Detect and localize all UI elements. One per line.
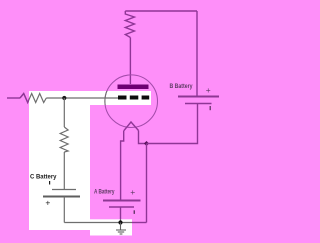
wire plate lead xyxy=(129,38,131,85)
svg-text:C Battery: C Battery xyxy=(30,173,57,180)
junction node cathode xyxy=(144,141,149,146)
wire top horizontal (plate loop) xyxy=(125,10,197,12)
wire A battery to ground dot (white part) xyxy=(120,219,122,222)
filament V xyxy=(124,122,139,131)
junction node grid/C xyxy=(62,96,66,100)
svg-text:+: + xyxy=(206,85,211,95)
svg-text:B Battery: B Battery xyxy=(170,83,193,90)
B battery long plate xyxy=(178,96,219,98)
white box around ground xyxy=(90,219,132,235)
svg-text:+: + xyxy=(45,197,50,207)
wire to C battery xyxy=(63,152,65,190)
B battery minus tick xyxy=(210,106,211,110)
A battery minus tick xyxy=(134,210,135,214)
wire A battery to ground dot (pink part) xyxy=(120,207,122,219)
svg-text:+: + xyxy=(130,187,135,197)
tube envelope arc over white band xyxy=(105,75,158,128)
resistor R_grid left part on pink xyxy=(20,94,32,103)
A battery short plate xyxy=(109,206,134,208)
C battery long plate xyxy=(43,196,80,198)
wire node down to ground rail xyxy=(146,144,148,223)
grid input lead (on pink) xyxy=(7,97,20,99)
ground symbol xyxy=(120,223,122,230)
B battery short plate xyxy=(185,103,212,105)
grid wire to tube xyxy=(46,97,118,99)
white column around C battery xyxy=(29,91,90,230)
bottom wire on white xyxy=(64,222,132,224)
ground junction dot xyxy=(118,220,122,224)
C branch wire down xyxy=(63,98,65,127)
C battery minus tick xyxy=(49,181,50,185)
tube envelope U1 xyxy=(105,75,158,128)
wire right vertical to B battery + xyxy=(196,11,198,96)
bottom wire on pink xyxy=(132,222,147,224)
wire node to B battery minus xyxy=(147,104,198,144)
resistor R_plate xyxy=(125,11,134,38)
C battery short plate xyxy=(52,189,76,191)
wire C battery to bottom xyxy=(63,197,65,223)
filament left leg xyxy=(121,131,124,201)
plate bar xyxy=(118,85,149,90)
filament right leg xyxy=(139,131,147,144)
grid dashes xyxy=(118,96,127,100)
resistor R_c vertical xyxy=(60,127,68,152)
A battery long plate xyxy=(103,200,141,202)
white band through grid row xyxy=(29,91,151,105)
svg-text:A Battery: A Battery xyxy=(94,188,115,195)
resistor R_grid xyxy=(20,94,46,103)
